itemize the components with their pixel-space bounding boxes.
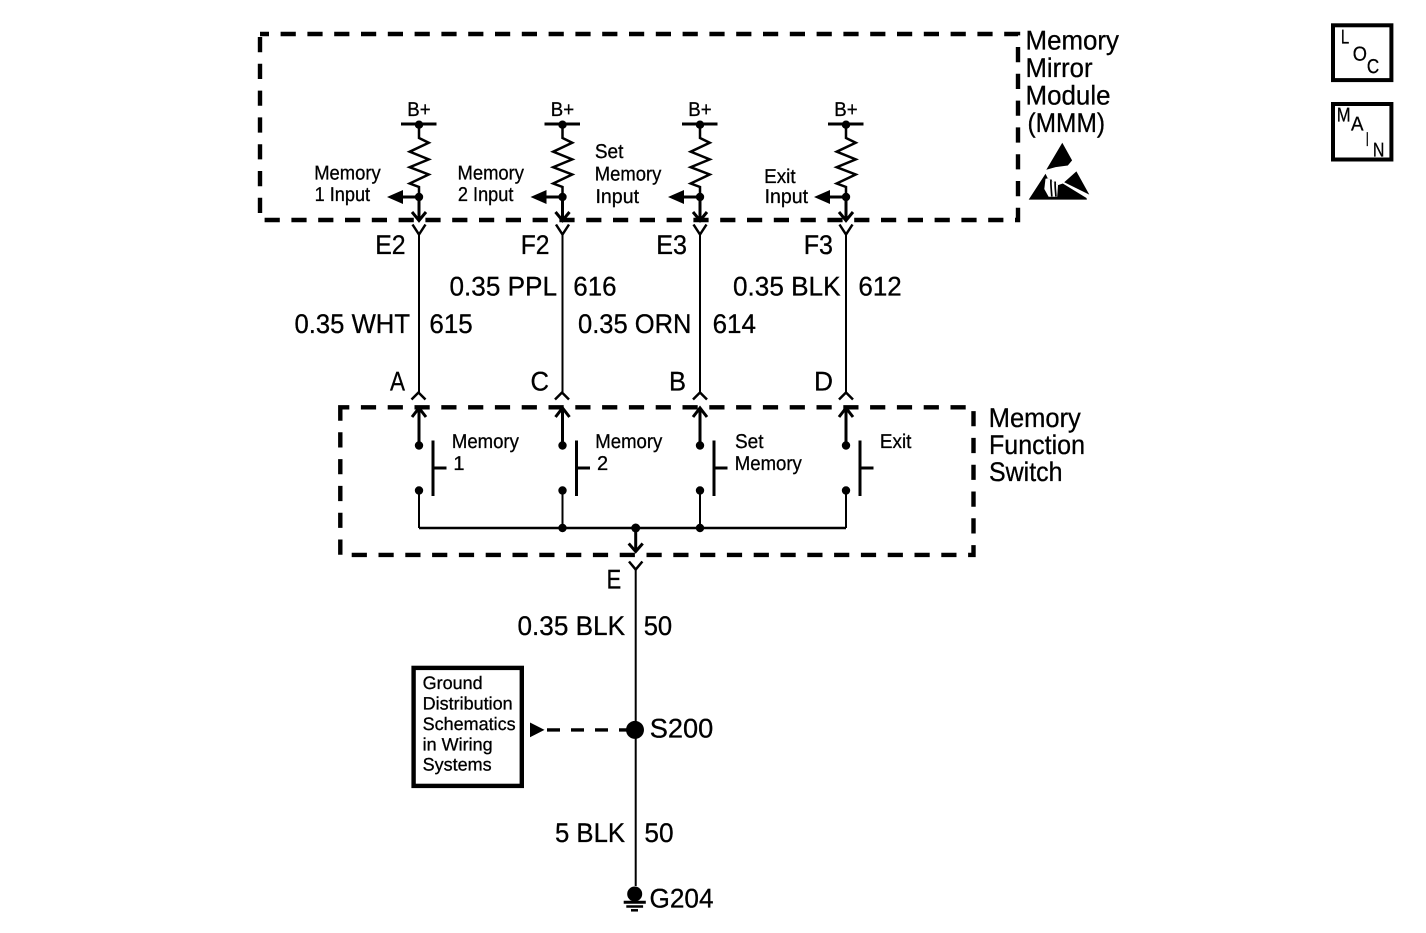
switch pin arrow C (556, 408, 570, 445)
svg-text:Memory: Memory (1026, 26, 1120, 56)
svg-text:E3: E3 (656, 230, 687, 260)
pin arrow out 2 (556, 197, 570, 221)
svg-text:Distribution: Distribution (423, 694, 513, 714)
svg-text:I: I (1366, 129, 1369, 151)
svg-text:0.35 BLK: 0.35 BLK (518, 611, 626, 641)
svg-text:B: B (669, 367, 686, 397)
switch box label Memory Function Switch (989, 403, 1085, 487)
svg-text:G204: G204 (650, 884, 714, 914)
switch label Memory 1 (452, 431, 519, 475)
svg-text:Memory: Memory (735, 453, 802, 475)
connector female E3 (694, 225, 707, 235)
svg-text:Memory: Memory (458, 163, 525, 185)
wire E to ground (635, 570, 637, 887)
wire F2 to C (562, 235, 564, 393)
svg-text:Switch: Switch (989, 457, 1063, 487)
pin arrow out E (629, 528, 643, 552)
switch label Memory 2 (595, 431, 662, 475)
resistor pull-up 1 (410, 125, 429, 197)
node junction 4 (842, 193, 850, 201)
switch Set Memory (696, 441, 728, 529)
svg-text:S200: S200 (650, 714, 714, 744)
connector female E (629, 562, 642, 570)
svg-text:A: A (390, 367, 405, 397)
wire E2 to A (418, 235, 420, 393)
svg-text:612: 612 (858, 271, 901, 301)
svg-text:B+: B+ (688, 99, 711, 121)
dashed reference wire (547, 728, 627, 731)
svg-text:2: 2 (597, 453, 608, 475)
B+ bar node 1 (401, 121, 437, 129)
B+ bar node 3 (682, 121, 718, 129)
svg-text:Mirror: Mirror (1026, 53, 1093, 83)
svg-text:50: 50 (644, 818, 673, 848)
connector female B (693, 393, 707, 400)
svg-text:Set: Set (735, 431, 764, 453)
svg-text:614: 614 (713, 309, 756, 339)
svg-text:Exit: Exit (764, 166, 796, 188)
svg-text:O: O (1353, 43, 1367, 65)
svg-text:Memory: Memory (452, 431, 519, 453)
svg-text:Module: Module (1026, 81, 1111, 111)
svg-text:C: C (531, 367, 550, 397)
svg-text:50: 50 (644, 611, 673, 641)
LOC reference box (1333, 25, 1391, 80)
Memory 1 Input arrow (387, 190, 419, 204)
switch label Set Memory (735, 431, 802, 475)
B+ bar node 4 (828, 121, 864, 129)
svg-text:615: 615 (429, 309, 472, 339)
switch pin arrow D (839, 408, 853, 445)
Exit Input arrow (814, 190, 846, 204)
svg-text:Schematics: Schematics (423, 714, 516, 734)
Exit Input label (764, 166, 808, 208)
svg-text:Memory: Memory (595, 163, 662, 185)
Memory 2 Input label (458, 163, 525, 206)
connector female F2 (556, 225, 569, 235)
bus junction node C2 (558, 524, 566, 532)
svg-text:Systems: Systems (423, 755, 492, 775)
svg-text:(MMM): (MMM) (1028, 108, 1106, 138)
svg-text:B+: B+ (834, 99, 857, 121)
svg-text:0.35 PPL: 0.35 PPL (450, 271, 558, 301)
svg-text:Input: Input (765, 186, 809, 208)
wire label 0.35 WHT 615 (295, 309, 473, 339)
svg-text:Input: Input (596, 186, 640, 208)
svg-text:1: 1 (453, 453, 464, 475)
pin arrow out 4 (839, 197, 853, 221)
connector female F3 (840, 225, 853, 235)
wire label 0.35 ORN 614 (578, 309, 756, 339)
resistor pull-up 2 (553, 125, 572, 197)
node junction 2 (558, 193, 566, 201)
bus junction node E (631, 524, 640, 533)
resistor pull-up 4 (837, 125, 856, 197)
svg-text:D: D (814, 367, 833, 397)
svg-text:0.35 ORN: 0.35 ORN (578, 309, 692, 339)
svg-text:616: 616 (573, 271, 616, 301)
svg-text:0.35 BLK: 0.35 BLK (733, 271, 841, 301)
svg-text:F3: F3 (804, 230, 833, 260)
connector female E2 (413, 225, 426, 235)
svg-text:Memory: Memory (595, 431, 662, 453)
svg-text:N: N (1373, 139, 1385, 161)
svg-text:B+: B+ (551, 99, 574, 121)
svg-text:M: M (1337, 105, 1351, 127)
wire label 0.35 PPL 616 (450, 271, 617, 301)
svg-text:E: E (607, 565, 622, 595)
svg-text:E2: E2 (375, 230, 405, 260)
svg-text:A: A (1351, 114, 1364, 136)
svg-text:Memory: Memory (989, 403, 1081, 433)
pin arrow out 1 (412, 197, 426, 221)
pin arrow out 3 (693, 197, 707, 221)
switch Exit (842, 441, 874, 529)
module box Memory Mirror Module (dashed) (260, 34, 1018, 220)
MAIN reference box (1333, 104, 1391, 161)
node junction 3 (696, 193, 704, 201)
Set Memory Input arrow (668, 190, 700, 204)
ground G204 (624, 887, 646, 911)
reference arrow (530, 723, 545, 738)
svg-text:5 BLK: 5 BLK (555, 818, 625, 848)
connector female A (412, 393, 426, 400)
svg-text:L: L (1341, 27, 1349, 49)
splice S200 (626, 721, 644, 739)
svg-text:0.35 WHT: 0.35 WHT (295, 309, 411, 339)
svg-text:Exit: Exit (880, 431, 912, 453)
node junction 1 (415, 193, 423, 201)
Memory 1 Input label (314, 163, 381, 206)
svg-text:in Wiring: in Wiring (423, 734, 493, 754)
B+ bar node 2 (545, 121, 581, 129)
wire label 0.35 BLK 612 (733, 271, 902, 301)
wire F3 to D (845, 235, 847, 393)
svg-text:F2: F2 (521, 230, 550, 260)
svg-text:Function: Function (989, 430, 1085, 460)
switch Memory 2 (558, 441, 590, 529)
svg-text:B+: B+ (407, 99, 430, 121)
Set Memory Input label (595, 141, 662, 208)
wire label 5 BLK 50 (555, 818, 674, 848)
bus junction node B2 (696, 524, 704, 532)
connector female D (839, 393, 853, 400)
resistor pull-up 3 (691, 125, 710, 197)
svg-text:Memory: Memory (314, 163, 381, 185)
Memory 2 Input arrow (531, 190, 563, 204)
svg-text:C: C (1367, 56, 1379, 78)
bus wire common (419, 527, 846, 530)
switch Memory 1 (415, 441, 447, 529)
wire label 0.35 BLK 50 (518, 611, 673, 641)
svg-text:Set: Set (595, 141, 624, 163)
ground distribution reference box (414, 668, 522, 786)
switch pin arrow B (693, 408, 707, 445)
svg-text:Ground: Ground (423, 673, 483, 693)
switch pin arrow A (412, 408, 426, 445)
ESD sensitivity symbol (1029, 143, 1090, 200)
switch box Memory Function Switch (dashed) (340, 407, 973, 555)
module label Memory Mirror Module (MMM) (1026, 26, 1120, 139)
wire E3 to B (699, 235, 701, 393)
connector female C (555, 393, 569, 400)
svg-text:1 Input: 1 Input (315, 184, 371, 206)
svg-text:2 Input: 2 Input (458, 184, 514, 206)
